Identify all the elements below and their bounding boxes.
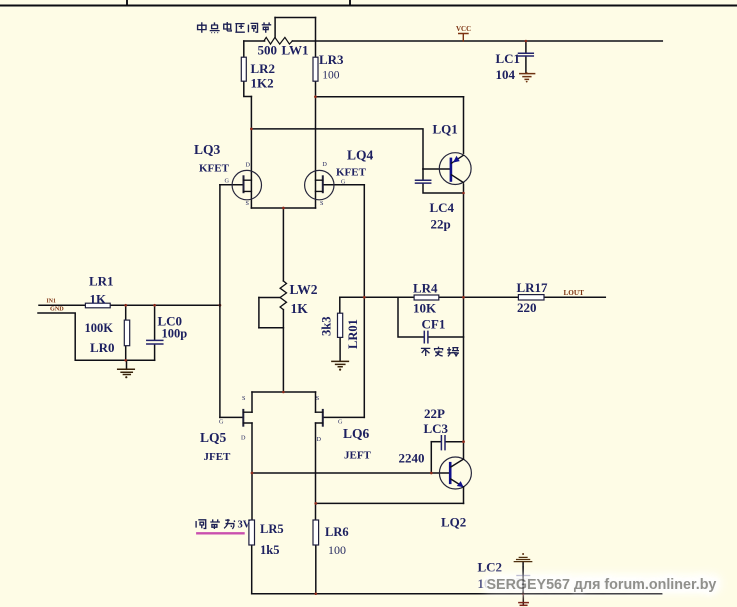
wire LW2 wiper loop vertical — [258, 298, 260, 328]
svg-text:LC2: LC2 — [478, 560, 503, 575]
svg-text:S: S — [246, 200, 250, 207]
svg-text:220: 220 — [517, 300, 537, 315]
wire LR3 bottom / LQ4 drain vertical — [315, 81, 317, 208]
wire LR3 node to LQ1 emitter horizontal — [316, 96, 464, 98]
svg-text:LR4: LR4 — [413, 280, 438, 295]
transistor LQ1 circle — [439, 153, 471, 185]
wire LQ3 drain vertical (through circle down to source bus) — [250, 97, 252, 209]
watermark halo strip — [482, 574, 722, 594]
wire LC0 bottom lead — [154, 345, 156, 361]
wire source bus center tap down to LW2 — [282, 208, 284, 281]
svg-text:S: S — [242, 395, 246, 402]
wire bottom rail redrawn over watermark — [470, 593, 662, 595]
note 不安装 (CJK, drawn strokes) — [421, 347, 459, 357]
potentiometer LW2 zigzag — [280, 281, 286, 310]
SECTION:BOTTOM — [252, 545, 662, 594]
svg-text:1K: 1K — [291, 301, 309, 316]
svg-text:LR6: LR6 — [325, 525, 349, 539]
svg-text:G: G — [225, 178, 230, 185]
wire ground stem below input bus — [126, 360, 128, 369]
wire LW1 wiper stem — [274, 18, 276, 38]
svg-text:2240: 2240 — [399, 451, 425, 466]
svg-text:KFET: KFET — [199, 163, 230, 175]
svg-text:10K: 10K — [413, 300, 437, 315]
wire LQ4 gate lead to feedback vertical — [323, 184, 365, 186]
wire LC3 left lead — [431, 441, 440, 443]
wire input GND return — [38, 313, 155, 360]
resistor LR17 body — [518, 295, 544, 300]
JFET LQ5 channel leads — [243, 412, 252, 423]
svg-text:LR3: LR3 — [319, 52, 344, 67]
JFET LQ3 gate bar — [243, 176, 245, 192]
svg-text:LQ4: LQ4 — [347, 147, 374, 162]
svg-text:SERGEY567 для forum.onliner.by: SERGEY567 для forum.onliner.by — [487, 577, 717, 593]
transistor LQ1 base bar — [450, 159, 453, 181]
ground symbol above LC2 (inverted) — [514, 557, 531, 561]
capacitor LC3 plates — [441, 436, 445, 450]
wire bottom ground rail — [252, 593, 662, 595]
wire LQ5 source lead up — [251, 392, 253, 412]
border tick 2 — [349, 0, 351, 6]
resistor LR1 body — [85, 303, 110, 308]
transistor LQ2 circle — [439, 457, 471, 489]
JFET LQ4 gate bar — [322, 176, 324, 192]
junction LC3 tap on base wire — [430, 472, 433, 475]
JFET LQ3 circle — [232, 170, 261, 199]
transistor LQ1 emitter diagonal (top) — [452, 155, 464, 163]
transistor LQ1 collector diagonal (bottom) — [452, 175, 464, 183]
svg-text:D: D — [322, 161, 327, 168]
SECTION:TEXT — [47, 25, 585, 591]
junction at LC0 tap — [153, 304, 156, 307]
svg-text:22p: 22p — [431, 216, 451, 231]
svg-text:JFET: JFET — [204, 451, 232, 463]
svg-text:3V: 3V — [238, 520, 251, 531]
wire LQ2 emitter to LR6 node — [316, 502, 464, 504]
svg-text:LW2: LW2 — [290, 282, 318, 297]
svg-text:LOUT: LOUT — [564, 289, 585, 297]
svg-text:G: G — [219, 419, 224, 426]
svg-text:S: S — [320, 200, 324, 207]
wire LC0 top lead — [154, 305, 156, 340]
junction LR6 bottom on rail — [315, 592, 318, 595]
SECTION:WATERMARK — [470, 566, 722, 594]
JFET LQ4 channel leads — [316, 180, 323, 191]
svg-text:LR17: LR17 — [517, 280, 549, 295]
svg-text:1k5: 1k5 — [260, 543, 279, 557]
note 中点电压调节 (CJK, drawn strokes) — [198, 22, 272, 33]
svg-text:1K: 1K — [90, 291, 108, 306]
svg-text:22P: 22P — [424, 406, 445, 421]
resistor LR01 body — [338, 313, 343, 337]
wire LQ3 drain to LQ1 base — [251, 129, 423, 169]
transistor LQ2 emitter diagonal (bottom) — [451, 479, 464, 487]
wire LR2 bottom lead with jog — [244, 81, 252, 96]
junction at LR3 node — [314, 95, 317, 98]
wire LC2 stem redrawn over watermark — [522, 566, 524, 594]
wire LC4 top stub — [422, 169, 424, 180]
wire LR5 bottom lead — [251, 545, 253, 594]
VCC power symbol — [459, 34, 468, 42]
svg-text:LC3: LC3 — [424, 421, 449, 436]
JFET LQ4 circle — [305, 170, 334, 199]
JFET LQ5 gate bar — [242, 410, 244, 426]
wire feedback vertical LQ4-LQ6 gates — [363, 185, 365, 418]
svg-text:LQ5: LQ5 — [200, 430, 227, 445]
svg-text:LQ6: LQ6 — [343, 426, 370, 441]
wire upper source bus — [251, 207, 315, 209]
junction emitter wire at LQ6 drain vertical — [314, 502, 317, 505]
wire LW1 wiper top horizontal — [275, 17, 315, 19]
ground symbol below LC1 — [520, 73, 535, 80]
svg-text:LR01: LR01 — [346, 319, 360, 349]
svg-text:CF1: CF1 — [422, 316, 446, 331]
ground symbol below LR01 — [332, 361, 349, 366]
junction at LC1 tap on VCC rail — [525, 40, 528, 43]
SECTION:CENTER — [220, 185, 605, 520]
wire CF1 left stub — [398, 297, 424, 337]
wire VCC rail right segment — [292, 40, 662, 42]
wire LW2 bottom lead down to lower source bus — [282, 310, 284, 392]
resistor LR4 body — [414, 295, 439, 300]
svg-text:3k3: 3k3 — [319, 317, 333, 336]
wire LQ2 emitter down — [463, 487, 465, 503]
wire LC4 bottom stub and loop to collector line — [423, 184, 464, 193]
junction output node at collector spine — [462, 296, 465, 299]
wire LR0 bottom lead — [125, 346, 127, 361]
SECTION:LEFTINPUT — [38, 305, 220, 369]
junction base wire at LQ5 drain vertical — [251, 472, 254, 475]
wire LQ3 gate lead — [220, 184, 244, 186]
capacitor CF1 plates — [424, 331, 428, 342]
svg-text:G: G — [338, 419, 343, 426]
junction at LR0 tap — [124, 304, 127, 307]
wire VCC rail left segment — [244, 40, 265, 42]
wire LC2 stem — [522, 562, 524, 594]
ground symbol fragment below rail (red) — [519, 594, 528, 606]
SECTION:TOPRAIL — [244, 18, 663, 460]
transistor LQ2 collector diagonal (top) — [451, 459, 464, 467]
junction at sources center tap — [282, 207, 285, 210]
junction feedback vertical on output wire — [363, 296, 366, 299]
wire LQ6 source lead up — [315, 392, 317, 412]
svg-text:LR2: LR2 — [251, 61, 276, 76]
potentiometer LW1 zigzag — [264, 37, 293, 44]
wire LQ2 base wire — [252, 472, 450, 474]
capacitor LC1 top stub — [525, 41, 527, 53]
resistor LR0 body — [124, 320, 129, 346]
capacitor LC2 plates (behind watermark) — [517, 576, 530, 579]
wire LQ6 drain vertical down to LR6 — [315, 423, 317, 520]
svg-text:100: 100 — [322, 70, 340, 82]
wire LW1 wiper right vertical to LR3 top — [315, 18, 317, 58]
wire CF1 right stub — [428, 336, 463, 338]
svg-text:S: S — [316, 395, 320, 402]
resistor LR5 body — [249, 520, 255, 545]
capacitor LC1 bottom stub — [525, 56, 527, 73]
junction lower source tap — [282, 391, 285, 394]
wire LQ5 gate lead — [220, 416, 243, 418]
svg-text:104: 104 — [496, 67, 516, 82]
svg-text:LC4: LC4 — [430, 200, 455, 215]
border tick 1 — [126, 0, 128, 6]
svg-text:JEFT: JEFT — [344, 450, 372, 462]
wire lower source bus — [252, 391, 316, 393]
wire LQ1 collector long vertical (output node spine) — [463, 184, 465, 459]
wire LR2 top lead — [243, 41, 245, 57]
wire LQ1 emitter top vertical — [463, 97, 465, 153]
wire LR0 top lead — [125, 305, 127, 320]
svg-text:D: D — [241, 435, 246, 442]
svg-text:GND: GND — [50, 305, 64, 312]
wire output node horizontal — [340, 296, 606, 298]
wire gate vertical LQ3-LQ5 (left) — [219, 185, 221, 418]
JFET LQ6 gate bar — [322, 410, 324, 426]
svg-text:G: G — [341, 178, 346, 185]
svg-text:100K: 100K — [85, 321, 114, 335]
wire LW2 wiper loop bottom — [259, 327, 284, 329]
transistor LQ1 emitter arrow (PNP, points to bar) — [453, 156, 460, 163]
svg-text:D: D — [317, 436, 322, 443]
SECTION:BORDER — [0, 0, 737, 6]
svg-text:100p: 100p — [162, 326, 188, 340]
wire LR01 bottom lead — [339, 337, 341, 361]
junction LR0 bottom on ground bus — [124, 359, 127, 362]
wire LQ5 drain vertical down to LR5 — [251, 423, 253, 520]
JFET LQ6 channel leads — [316, 412, 323, 423]
junction LC4 loop on collector spine — [462, 192, 465, 195]
svg-text:LR1: LR1 — [89, 274, 114, 289]
wire LQ1 base lead — [423, 168, 450, 170]
svg-text:IN1: IN1 — [47, 298, 56, 304]
resistor LR2 body — [241, 57, 246, 81]
wire LQ6 gate lead — [323, 416, 365, 418]
wire LC3 left stub down to base wire — [430, 442, 432, 473]
capacitor LC0 plates — [147, 340, 163, 344]
capacitor LC1 plates — [519, 53, 534, 56]
svg-text:D: D — [246, 161, 251, 168]
svg-text:VCC: VCC — [456, 25, 471, 33]
svg-text:LQ3: LQ3 — [194, 142, 221, 157]
transistor LQ2 base bar — [449, 463, 452, 483]
resistor LR3 body — [313, 57, 318, 81]
junction input wire at gate vertical — [219, 304, 222, 307]
transistor LQ2 emitter arrow (NPN, points outward) — [457, 481, 464, 487]
capacitor LC4 plates — [416, 180, 431, 183]
junction LC3 tap on collector spine — [462, 440, 465, 443]
junction LC2 on bottom rail — [522, 592, 525, 595]
svg-text:LQ1: LQ1 — [433, 121, 458, 136]
svg-text:500: 500 — [258, 43, 278, 58]
svg-text:LR5: LR5 — [260, 522, 284, 536]
wire LR01 top lead — [339, 297, 341, 313]
ground symbol below input bus — [118, 369, 135, 374]
wire LW2 wiper horizontal — [259, 297, 280, 299]
svg-text:100: 100 — [328, 543, 346, 557]
resistor LR6 body — [313, 520, 319, 545]
svg-text:LC1: LC1 — [496, 51, 521, 66]
svg-text:KFET: KFET — [336, 167, 367, 179]
wire input IN1 horizontal — [39, 304, 220, 306]
svg-text:LQ2: LQ2 — [441, 515, 466, 530]
wire LR6 bottom lead — [315, 545, 317, 594]
JFET LQ3 channel leads — [244, 180, 252, 191]
svg-text:1K2: 1K2 — [251, 76, 274, 91]
note 调节为 3V (CJK, drawn strokes) — [196, 519, 235, 529]
svg-text:LR0: LR0 — [90, 340, 115, 355]
wire LC3 right lead — [446, 441, 464, 443]
sheet border line (top) — [0, 5, 737, 7]
magenta underline of note — [197, 532, 243, 534]
junction at LQ3 drain / base wire — [250, 127, 253, 130]
svg-text:LW1: LW1 — [282, 43, 309, 58]
